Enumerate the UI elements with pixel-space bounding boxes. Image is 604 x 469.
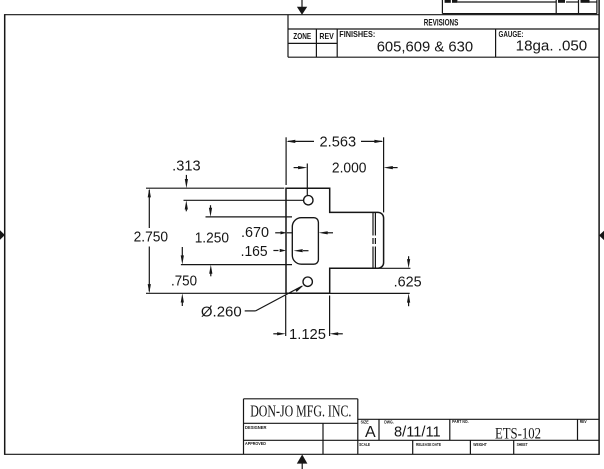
size label and letter A	[361, 419, 376, 441]
svg-text:REV: REV	[319, 32, 334, 41]
dimension .670	[275, 231, 333, 234]
svg-text:APPROVED: APPROVED	[245, 441, 267, 446]
scale label	[359, 442, 370, 447]
svg-text:SHEET: SHEET	[517, 442, 528, 447]
extension line hole center	[184, 199, 304, 201]
svg-text:RELEASE DATE: RELEASE DATE	[416, 442, 441, 447]
extension line wing bottom (right)	[378, 267, 410, 269]
title block approved label	[245, 441, 267, 446]
svg-text:FINISHES:: FINISHES:	[339, 30, 375, 39]
dimension 2.000	[294, 164, 398, 196]
svg-text:2.563: 2.563	[320, 134, 357, 150]
dimension 1.125	[273, 296, 343, 337]
svg-text:DWG.: DWG.	[384, 419, 394, 424]
svg-text:ZONE: ZONE	[293, 32, 311, 41]
dimension .625	[407, 256, 410, 306]
svg-text:.313: .313	[172, 159, 200, 175]
svg-text:.625: .625	[394, 274, 422, 290]
svg-text:WEIGHT: WEIGHT	[473, 442, 487, 447]
svg-text:ETS-102: ETS-102	[495, 426, 541, 443]
svg-text:8/11/11: 8/11/11	[394, 424, 441, 441]
sheet label	[517, 442, 528, 447]
extension line opening bottom	[181, 264, 292, 266]
svg-text:REV: REV	[580, 419, 587, 424]
svg-text:DESIGNER: DESIGNER	[245, 425, 267, 430]
top screw hole	[304, 196, 313, 205]
fold mark arrow top	[297, 0, 307, 15]
svg-text:Ø.260: Ø.260	[201, 304, 242, 320]
latch opening	[292, 218, 318, 265]
svg-text:605,609 & 630: 605,609 & 630	[377, 39, 473, 56]
leader diameter .260	[245, 285, 304, 311]
part no label and number	[452, 419, 541, 443]
dimension .313	[185, 175, 188, 211]
svg-text:1.250: 1.250	[195, 231, 229, 247]
svg-text:PART NO.: PART NO.	[452, 419, 469, 424]
title block designer label	[245, 425, 267, 430]
fold mark arrow bottom	[297, 455, 308, 469]
dimension 1.250	[209, 205, 213, 276]
bend lines on lip	[373, 213, 375, 268]
svg-text:A: A	[365, 424, 376, 441]
svg-text:2.000: 2.000	[332, 161, 367, 177]
part outline: strike plate	[286, 188, 384, 293]
svg-text:.750: .750	[171, 274, 197, 290]
extension line opening top	[206, 216, 293, 218]
revisions table	[288, 15, 599, 58]
svg-text:18ga. .050: 18ga. .050	[516, 38, 588, 55]
release date label	[416, 442, 441, 447]
title block company name	[250, 401, 351, 420]
rev label	[580, 419, 587, 424]
bottom screw hole	[303, 277, 312, 286]
extension line plate bottom (left)	[146, 292, 287, 294]
dwg label and date	[384, 419, 441, 440]
weight label	[473, 442, 487, 447]
dimension 2.750	[148, 188, 151, 293]
svg-text:REVISIONS: REVISIONS	[424, 17, 459, 28]
fold mark arrow right	[599, 231, 604, 240]
revisions table cut-off row top right	[442, 0, 597, 14]
svg-text:DON-JO MFG. INC.: DON-JO MFG. INC.	[250, 401, 351, 420]
svg-text:.165: .165	[241, 244, 268, 260]
dimension .165	[273, 249, 308, 252]
extension line plate bottom (right)	[330, 292, 410, 294]
title block left section	[244, 399, 600, 455]
svg-text:1.125: 1.125	[289, 327, 326, 343]
fold mark arrow left	[0, 230, 5, 239]
title block right section	[358, 419, 599, 454]
svg-text:.670: .670	[241, 225, 269, 241]
extension line plate top (left)	[146, 187, 284, 189]
dimension .750	[181, 247, 184, 306]
svg-text:2.750: 2.750	[134, 229, 169, 245]
dimension 2.563	[286, 137, 384, 212]
svg-text:SCALE: SCALE	[359, 442, 370, 447]
